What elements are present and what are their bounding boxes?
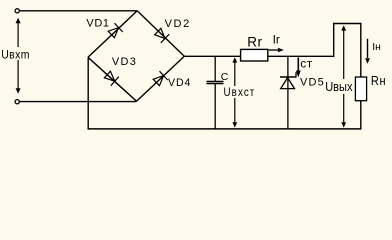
current arrow Ist xyxy=(296,58,301,78)
svg-text:ст: ст xyxy=(300,56,313,70)
svg-text:VD1: VD1 xyxy=(86,18,109,30)
load resistor Rn xyxy=(355,77,366,101)
zener diode VD5 xyxy=(280,56,297,129)
diode VD3 xyxy=(104,71,118,86)
wire from bridge right vertex to resistor xyxy=(184,55,241,57)
diode VD4 xyxy=(153,71,168,86)
wire bottom rail xyxy=(88,128,362,130)
resistor Rr xyxy=(241,49,268,61)
svg-text:Iн: Iн xyxy=(372,42,381,53)
wire left vertical to rail xyxy=(87,57,89,129)
svg-text:Rr: Rr xyxy=(247,35,262,50)
Uvxm dimension arrow xyxy=(16,18,21,94)
svg-text:Rн: Rн xyxy=(371,73,386,88)
svg-text:VD5: VD5 xyxy=(300,76,325,88)
wire down to load xyxy=(360,24,362,78)
terminal bottom input xyxy=(15,100,19,104)
wire load to rail xyxy=(360,101,362,130)
svg-text:Uвхст: Uвхст xyxy=(224,86,256,99)
wire edge B-R xyxy=(137,56,185,101)
current arrow In xyxy=(365,39,370,64)
svg-text:VD4: VD4 xyxy=(168,77,191,89)
Uvx.st dimension arrow xyxy=(232,57,237,127)
wire top right horizontal xyxy=(333,23,362,25)
svg-text:Uвхm: Uвхm xyxy=(1,49,30,62)
wire edge L-B xyxy=(88,57,137,101)
current arrow Ir xyxy=(269,48,284,53)
wire resistor to right corner xyxy=(268,55,335,57)
wire up at right corner xyxy=(333,24,335,57)
capacitor C xyxy=(207,56,224,129)
wire edge T-R xyxy=(137,11,184,57)
wire bottom AC xyxy=(20,101,137,103)
svg-text:VD2: VD2 xyxy=(165,18,191,30)
svg-text:C: C xyxy=(221,71,229,83)
svg-text:VD3: VD3 xyxy=(112,56,137,68)
bridge diamond wires xyxy=(88,11,184,101)
terminal top input xyxy=(15,9,19,13)
wire top AC xyxy=(20,10,138,12)
svg-text:Ir: Ir xyxy=(273,33,280,47)
svg-text:Uвых: Uвых xyxy=(325,79,352,94)
wire edge T-L xyxy=(88,11,137,58)
diode VD1 xyxy=(108,23,123,38)
diode VD2 xyxy=(155,28,170,43)
Uvyx dimension arrow xyxy=(341,25,346,127)
